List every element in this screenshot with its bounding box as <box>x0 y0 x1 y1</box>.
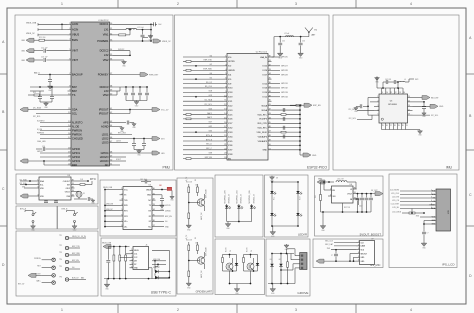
wire AGND <box>113 126 122 128</box>
svg-text:VDD_CPU: VDD_CPU <box>257 123 267 125</box>
wire ESP32 left row G4 <box>183 74 224 76</box>
svg-text:C62 C63: C62 C63 <box>385 79 391 81</box>
ground flag VINT2 <box>26 58 34 62</box>
MIC gnd bus <box>324 260 356 262</box>
svg-text:LCD_CS: LCD_CS <box>392 200 400 202</box>
svg-text:LCD: LCD <box>448 210 450 214</box>
wire ESP32 left row ESP_TXD <box>183 60 224 62</box>
wire ESP32 left row G5 <box>183 78 224 80</box>
LED ground <box>227 222 229 223</box>
svg-text:GPIO4: GPIO4 <box>101 151 109 155</box>
svg-text:OSCO: OSCO <box>65 191 71 193</box>
svg-text:VDDA3P3: VDDA3P3 <box>258 135 268 138</box>
LCD gnd verticals <box>424 220 431 222</box>
svg-text:5: 5 <box>358 256 359 258</box>
frame column tick 3-4 bottom <box>355 304 357 313</box>
svg-text:36: 36 <box>110 59 112 61</box>
svg-text:IMU_INT: IMU_INT <box>431 97 439 99</box>
svg-text:6: 6 <box>121 215 122 217</box>
capacitor C15 <box>39 91 41 96</box>
ground flag RTC <box>20 194 28 198</box>
IMU bottom pin stub <box>393 123 395 128</box>
svg-text:30: 30 <box>354 188 356 190</box>
svg-text:ESP_TXD: ESP_TXD <box>72 246 80 248</box>
IRTX cell 1 top wires <box>229 255 231 259</box>
capacitor C21 row1 <box>151 23 154 25</box>
svg-text:X1: X1 <box>83 193 85 195</box>
svg-text:31: 31 <box>354 192 356 194</box>
serial chip U5 <box>123 187 152 230</box>
svg-text:39: 39 <box>110 90 112 92</box>
wire ACIN row2 <box>38 29 68 31</box>
svg-text:VDDA: VDDA <box>261 104 267 107</box>
svg-text:TP3: TP3 <box>59 252 62 254</box>
IR top bus <box>271 181 273 182</box>
svg-text:51: 51 <box>269 148 271 150</box>
LED branch 1 diode <box>226 204 228 206</box>
RTC crystal X1 <box>75 191 80 193</box>
svg-text:CHG_LED: CHG_LED <box>37 141 46 143</box>
svg-text:BUS_5V: BUS_5V <box>72 278 79 280</box>
wire PWROK <box>40 134 68 136</box>
BOOST inductor L3 <box>336 181 347 182</box>
svg-text:10: 10 <box>68 94 70 96</box>
svg-text:33: 33 <box>72 190 74 192</box>
svg-text:I2C_SCL: I2C_SCL <box>205 104 212 106</box>
svg-text:LCD_LEDK: LCD_LEDK <box>392 211 402 213</box>
svg-text:I2C_SDA: I2C_SDA <box>349 108 357 111</box>
svg-text:32: 32 <box>354 198 356 200</box>
svg-text:10: 10 <box>224 95 226 97</box>
svg-text:32: 32 <box>269 64 271 66</box>
antenna E1 <box>308 32 310 36</box>
inductor L2 antenna <box>286 36 294 37</box>
svg-text:L4: L4 <box>404 79 406 81</box>
capacitor C33 <box>132 87 134 93</box>
wire ESP32 left row G2 <box>183 65 224 67</box>
frame row tick B-C right <box>466 149 474 151</box>
svg-text:TS: TS <box>72 93 76 97</box>
serial right net U0RXD <box>156 210 165 212</box>
svg-text:6: 6 <box>131 266 132 268</box>
svg-text:GPIO2: GPIO2 <box>72 155 80 159</box>
ESP32 VDD vertical bus <box>299 106 301 155</box>
svg-text:SD_D2: SD_D2 <box>206 82 212 84</box>
svg-text:C?: C? <box>331 255 333 257</box>
svg-text:VBUS: VBUS <box>72 33 79 37</box>
serial chip section box <box>100 180 176 236</box>
svg-text:2: 2 <box>69 28 70 30</box>
frame column tick 3-4 top <box>355 0 357 8</box>
vertical bus right top <box>150 24 152 41</box>
svg-text:VIN3: VIN3 <box>103 93 109 97</box>
svg-text:G5: G5 <box>210 77 212 79</box>
serial left row wire <box>105 215 120 217</box>
svg-text:6: 6 <box>431 207 432 209</box>
GROVE diode D3 <box>271 254 273 264</box>
serial right net G0 <box>156 220 165 222</box>
PMU section box <box>15 15 173 170</box>
GROVE diode D4 <box>280 254 282 264</box>
svg-text:11: 11 <box>224 100 226 102</box>
svg-text:LDO2O: LDO2O <box>100 155 109 159</box>
wire VBUS_USB to PMU ACIN <box>38 23 68 25</box>
wire ESP32 VDD row <box>272 149 301 151</box>
svg-text:VBUS_5V: VBUS_5V <box>72 236 80 238</box>
button BTN_A wire tail <box>24 211 26 213</box>
svg-text:5: 5 <box>121 209 122 211</box>
wire ESP32 VDD row <box>272 140 301 142</box>
svg-text:OSCI: OSCI <box>66 188 71 190</box>
LCD power pin VDD <box>431 216 436 218</box>
svg-text:10: 10 <box>386 92 388 94</box>
svg-text:7: 7 <box>225 82 226 84</box>
IMU right pin stub <box>408 114 413 116</box>
capacitor C22 <box>142 30 144 35</box>
svg-text:5VOUT_BOOST: 5VOUT_BOOST <box>360 232 382 236</box>
svg-text:GPIO1: GPIO1 <box>37 151 43 153</box>
svg-text:BIAS: BIAS <box>72 38 78 42</box>
svg-text:32: 32 <box>110 33 112 35</box>
svg-text:GPIO27: GPIO27 <box>281 66 288 68</box>
IMU bottom pin stub <box>389 123 391 128</box>
svg-text:GPIO31: GPIO31 <box>281 83 288 85</box>
svg-text:13: 13 <box>68 121 70 123</box>
svg-text:4: 4 <box>69 39 70 41</box>
svg-text:WS2812_5V: WS2812_5V <box>253 193 255 203</box>
svg-text:G32: G32 <box>209 126 213 128</box>
GPIO lower ground <box>188 282 190 283</box>
button B section box <box>58 206 99 229</box>
svg-text:9: 9 <box>69 90 70 92</box>
svg-text:CS: CS <box>433 201 435 203</box>
svg-text:34: 34 <box>110 49 112 51</box>
GPIO lower lower resistor <box>188 271 190 277</box>
svg-text:LDO1: LDO1 <box>102 132 109 136</box>
IMU chip U3 MPU6886 <box>379 94 408 123</box>
IMU left pin stub <box>374 97 379 99</box>
svg-text:2: 2 <box>131 252 132 254</box>
IMU left pin stub <box>374 101 379 103</box>
test point TP4 <box>65 260 68 263</box>
svg-text:USB_DP: USB_DP <box>153 267 161 269</box>
svg-text:21: 21 <box>406 125 408 127</box>
BOOST cap C101 <box>361 194 363 198</box>
capacitor C16 <box>36 148 42 150</box>
svg-text:R12: R12 <box>33 92 36 94</box>
IR TX section box <box>215 239 265 295</box>
I2S MIC section box <box>313 239 383 268</box>
svg-text:15: 15 <box>68 129 70 131</box>
IMU top rail <box>379 87 403 89</box>
serial left row wire <box>105 204 120 206</box>
svg-text:TP2: TP2 <box>59 245 62 247</box>
GPIO upper drain net <box>204 194 206 196</box>
LCD ledk resistor <box>402 212 409 214</box>
test point TP1 <box>65 236 68 239</box>
svg-text:U0RXD: U0RXD <box>228 70 235 72</box>
svg-text:CC2: CC2 <box>134 257 137 259</box>
svg-text:PWR_KEY: PWR_KEY <box>149 74 159 76</box>
LED section box <box>215 175 263 237</box>
USB esd diode D2 <box>157 264 159 266</box>
svg-text:2: 2 <box>225 60 226 62</box>
svg-text:VDD_SDIO: VDD_SDIO <box>257 132 268 134</box>
svg-text:4: 4 <box>410 308 412 312</box>
svg-text:CHGLED: CHGLED <box>72 136 83 140</box>
GROVE connector pin <box>295 267 300 269</box>
svg-text:36: 36 <box>269 82 271 84</box>
svg-text:NC: NC <box>105 163 109 167</box>
BOOST left resistor R31 <box>321 181 326 183</box>
svg-text:G19: G19 <box>209 95 213 97</box>
USB connector J1 TYPE-C <box>133 247 149 270</box>
svg-text:LNA_IN: LNA_IN <box>260 56 268 59</box>
svg-text:U0RXD: U0RXD <box>165 211 172 213</box>
IR right rail <box>297 182 299 191</box>
svg-text:DAC2: DAC2 <box>207 116 212 119</box>
capacitor bank ground bus <box>126 100 147 102</box>
svg-text:D2: D2 <box>149 221 151 223</box>
wire LDO1 <box>113 134 132 136</box>
wire ESP32 left row ESP_EN <box>183 158 224 160</box>
svg-text:L2 2nH: L2 2nH <box>284 33 290 35</box>
svg-text:SDA: SDA <box>72 107 78 111</box>
test point TP6 tail <box>80 279 86 281</box>
GROVE ground <box>272 284 274 288</box>
svg-text:C12 1uF: C12 1uF <box>41 47 47 49</box>
svg-text:LDO3: LDO3 <box>116 141 121 143</box>
svg-text:3: 3 <box>295 2 297 6</box>
svg-text:IR_TX: IR_TX <box>247 248 249 252</box>
capacitor bank rail <box>113 86 148 88</box>
wire CHGLED <box>40 138 68 140</box>
wire ESP32 left row G38 <box>183 153 224 155</box>
svg-text:RS: RS <box>433 198 435 200</box>
USB cap C91 <box>107 247 109 260</box>
wire LDO2O <box>113 156 126 158</box>
svg-text:31: 31 <box>269 60 271 62</box>
wire ESP32 left row SD_CLK <box>183 87 224 89</box>
svg-text:3: 3 <box>431 197 432 199</box>
wire APS + cap <box>113 122 126 124</box>
svg-text:28: 28 <box>408 114 410 116</box>
svg-text:12: 12 <box>395 92 397 94</box>
svg-text:GND: GND <box>439 106 444 108</box>
svg-text:VDDA: VDDA <box>261 109 267 112</box>
svg-text:BAT: BAT <box>72 85 77 89</box>
svg-text:19: 19 <box>68 152 70 154</box>
wire ESP32 right row upper <box>272 74 281 76</box>
RTC net 3V3 <box>24 187 36 189</box>
svg-text:VBUS: VBUS <box>146 189 152 191</box>
svg-text:MIC_CLK: MIC_CLK <box>325 241 334 243</box>
IMU bottom stub to bus <box>405 128 407 130</box>
net flag GPIO4 LED <box>113 152 152 154</box>
LCD power pin GND <box>431 223 436 225</box>
svg-text:6: 6 <box>358 260 359 262</box>
serial gnd2 <box>171 195 173 198</box>
wire ESP32 right row upper <box>272 91 281 93</box>
GROVE connector pin <box>295 263 300 265</box>
MIC chip U7 SPM1423 <box>360 241 375 265</box>
svg-text:GPIO/EN/UART: GPIO/EN/UART <box>196 291 213 294</box>
capacitor C15b <box>51 87 53 96</box>
IMU top pin stub <box>385 88 387 94</box>
svg-text:3: 3 <box>225 64 226 66</box>
svg-text:5: 5 <box>131 263 132 265</box>
capacitor C35 <box>146 87 148 93</box>
svg-text:38: 38 <box>110 86 112 88</box>
RTC cap C72 <box>55 200 57 201</box>
svg-text:3V3: 3V3 <box>416 215 419 217</box>
test point section box <box>16 231 98 296</box>
IMU top ground <box>377 87 379 89</box>
svg-text:PMU: PMU <box>162 166 170 170</box>
svg-text:33: 33 <box>269 69 271 71</box>
svg-text:3: 3 <box>69 33 70 35</box>
test point TP2 <box>65 246 68 249</box>
svg-text:USB_DM: USB_DM <box>106 204 114 206</box>
svg-text:SD_CLK: SD_CLK <box>205 86 213 88</box>
svg-text:U0TXD: U0TXD <box>165 205 171 207</box>
svg-text:14: 14 <box>403 92 405 94</box>
IMU bottom pin stub <box>401 123 403 128</box>
svg-text:4: 4 <box>358 252 359 254</box>
svg-text:22uF: 22uF <box>359 206 363 208</box>
svg-text:DCDC2: DCDC2 <box>118 49 124 51</box>
svg-text:BTN_A: BTN_A <box>206 134 213 137</box>
wire LDO3 <box>113 142 128 144</box>
svg-text:LCD_RST: LCD_RST <box>391 203 400 205</box>
GROVE section box <box>266 239 310 296</box>
capacitor C42 <box>143 139 145 144</box>
svg-text:34: 34 <box>72 195 74 197</box>
IRTX cell 1 transistor <box>226 263 233 270</box>
frame column tick 1-2 top <box>117 0 119 8</box>
svg-text:40: 40 <box>110 94 112 96</box>
IMU bottom bus gnd <box>406 129 421 131</box>
svg-text:3V3: 3V3 <box>22 186 25 188</box>
svg-text:POWER1: POWER1 <box>97 39 109 43</box>
svg-text:C81 104: C81 104 <box>140 179 146 181</box>
wire ESP32 VDD row <box>272 131 301 133</box>
wire IPSOUT2 <box>113 113 130 115</box>
svg-text:44: 44 <box>269 117 271 119</box>
BOOST ground <box>322 212 324 225</box>
wire ESP32 VDD row <box>272 113 301 115</box>
ground antenna right <box>300 52 302 53</box>
net flag 5V test <box>28 273 36 277</box>
USB shell wire <box>149 267 153 269</box>
svg-text:5: 5 <box>69 49 70 51</box>
IR bottom bus <box>272 225 298 227</box>
svg-text:C16: C16 <box>42 146 45 148</box>
svg-text:SELECT: SELECT <box>361 253 368 255</box>
IRTX cell 1 bottom <box>222 267 224 271</box>
frame row tick C-D right <box>466 225 474 227</box>
svg-text:R32 75K: R32 75K <box>344 207 351 209</box>
svg-text:LCD_CLK: LCD_CLK <box>391 193 400 195</box>
GROVE bottom bus <box>268 283 295 285</box>
svg-text:VBUS_USB: VBUS_USB <box>102 243 112 245</box>
svg-text:IPSOUT: IPSOUT <box>99 107 109 111</box>
svg-text:BAT: BAT <box>81 277 84 280</box>
svg-text:1: 1 <box>37 180 38 182</box>
svg-text:32: 32 <box>153 199 155 201</box>
capacitor C13 <box>43 58 45 62</box>
IMU top cap C62 <box>382 82 384 88</box>
svg-text:17: 17 <box>224 126 226 128</box>
svg-text:34: 34 <box>153 209 155 211</box>
svg-text:UD+: UD+ <box>124 221 128 223</box>
svg-text:RTC_3V3: RTC_3V3 <box>118 133 126 135</box>
svg-text:8: 8 <box>121 225 122 227</box>
IMU right pin stub <box>408 97 413 99</box>
svg-text:WS2812_5V: WS2812_5V <box>241 193 243 203</box>
svg-text:U0TXD: U0TXD <box>228 61 235 63</box>
IRTX cell 2 bottom <box>243 267 245 271</box>
test point RST <box>52 266 55 269</box>
svg-text:ESP_RXD: ESP_RXD <box>203 69 212 71</box>
wire DCDC2 <box>113 50 130 52</box>
svg-text:CC1: CC1 <box>134 254 137 256</box>
IMU top pin stub <box>381 88 383 94</box>
svg-text:10K: 10K <box>195 185 198 187</box>
GROVE wire pin4 <box>294 268 296 284</box>
svg-text:I2C_SCL: I2C_SCL <box>431 115 438 117</box>
svg-text:VBUS_USB: VBUS_USB <box>26 22 37 24</box>
wire ESP32 left row DAC2 <box>183 118 224 120</box>
ground right lower <box>134 149 144 151</box>
svg-text:44: 44 <box>110 125 112 127</box>
svg-text:33: 33 <box>110 40 112 42</box>
test point TP5 <box>65 267 68 270</box>
net flag ESP_EN right <box>296 104 301 106</box>
USB right vertical <box>168 250 170 278</box>
IPS_LCD section box <box>389 174 457 268</box>
svg-text:15: 15 <box>224 117 226 119</box>
svg-text:21: 21 <box>68 160 70 162</box>
wire LX1 row2 <box>113 29 126 31</box>
svg-text:35: 35 <box>153 215 155 217</box>
svg-text:4: 4 <box>410 2 412 6</box>
serial left vertical <box>104 190 106 227</box>
wire ESP32 VDD row <box>272 109 301 111</box>
svg-text:16: 16 <box>224 122 226 124</box>
LCD connector J3 <box>436 189 451 231</box>
svg-text:U2 PICO-D4: U2 PICO-D4 <box>256 52 268 54</box>
svg-text:DCDC2: DCDC2 <box>100 49 109 53</box>
svg-text:FB1: FB1 <box>159 185 162 187</box>
svg-text:I2C_SDA: I2C_SDA <box>20 178 28 181</box>
IMU bottom stub to bus <box>393 128 395 130</box>
svg-text:GPIO0: GPIO0 <box>72 147 80 151</box>
svg-text:LDO3O: LDO3O <box>100 159 109 163</box>
USB DP net <box>152 263 166 265</box>
GPIO/EN/UART section box <box>177 178 213 294</box>
test point TP6 <box>65 278 68 281</box>
svg-text:42: 42 <box>269 109 271 111</box>
svg-text:EXT_5V: EXT_5V <box>18 284 25 286</box>
svg-text:38: 38 <box>269 91 271 93</box>
svg-text:46: 46 <box>110 137 112 139</box>
svg-text:3: 3 <box>358 248 359 250</box>
USB DM net <box>152 260 166 262</box>
svg-text:CLKOUT: CLKOUT <box>63 181 71 183</box>
LCD ground <box>423 242 425 243</box>
net flag 5V_OUT <box>375 192 383 196</box>
